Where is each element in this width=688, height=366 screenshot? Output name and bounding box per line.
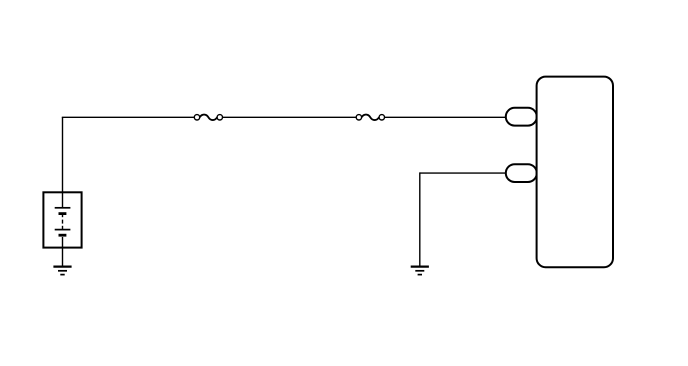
connector pin 2 <box>506 164 537 182</box>
fuse F1 <box>194 115 222 121</box>
ground (battery) <box>53 267 71 275</box>
battery B1 <box>43 192 81 247</box>
connector pin 1 <box>506 108 537 126</box>
wire F1 to F2 <box>222 116 356 118</box>
wire F2 to pin 1 <box>384 116 505 118</box>
wire battery up <box>62 117 64 192</box>
ECU module U1 <box>537 77 613 268</box>
wire pin 2 to corner <box>420 172 506 174</box>
wire corner down <box>419 172 421 266</box>
ground (pin 2) <box>411 267 429 275</box>
wire battery to ground <box>62 248 64 267</box>
fuse F2 <box>356 115 384 121</box>
wire to fuse F1 <box>62 116 195 118</box>
